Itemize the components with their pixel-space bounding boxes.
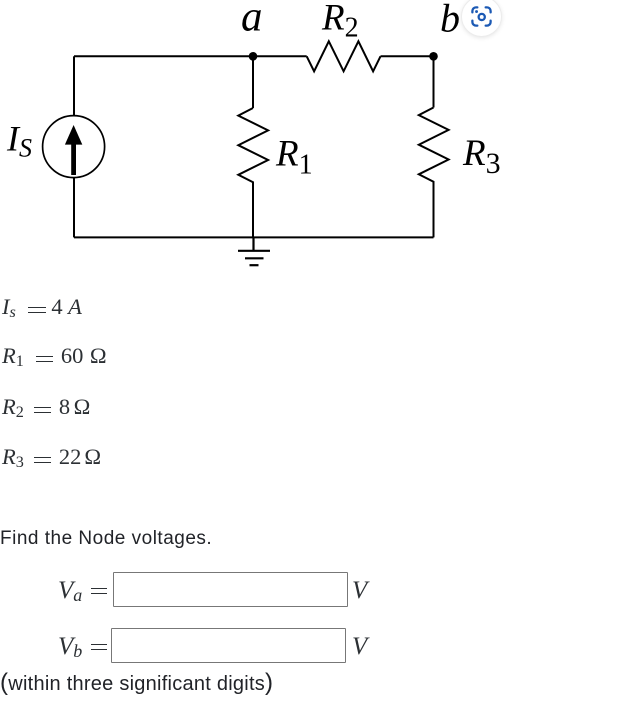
node a junction dot <box>249 52 258 61</box>
prompt text <box>0 529 212 548</box>
current source IS circle <box>43 116 105 178</box>
svg-text:R3: R3 <box>462 133 501 180</box>
note text <box>0 671 273 695</box>
answer row Va <box>58 578 107 603</box>
circuit schematic drawing <box>0 0 643 290</box>
wire: R3 bottom to bottom rail <box>433 186 435 238</box>
wire: current source bottom to bottom rail <box>73 178 75 238</box>
wire: node b down to R3 top <box>433 56 435 107</box>
given value: Is = 4 A <box>2 296 82 319</box>
node b junction dot <box>429 52 438 61</box>
resistor R2 (horizontal zigzag) <box>307 41 381 71</box>
answer row Vb <box>58 634 107 659</box>
svg-text:b: b <box>440 0 460 41</box>
given value: R2 = 8 ohm <box>2 396 90 419</box>
resistor R3 (vertical zigzag) <box>419 108 449 186</box>
wire: node a down to R1 top <box>252 56 254 108</box>
given value: R1 = 60 ohm <box>2 345 107 368</box>
wire: R1 bottom to bottom rail <box>252 186 254 237</box>
wire: node a to R2 left lead <box>253 55 307 57</box>
screenshot-search icon button <box>461 0 502 37</box>
input box Vb <box>111 628 346 663</box>
unit V for Va <box>352 578 367 603</box>
unit V for Vb <box>352 634 367 659</box>
svg-text:a: a <box>241 0 263 41</box>
wire: left rail down to current source top <box>73 56 75 115</box>
svg-text:R1: R1 <box>275 133 313 180</box>
svg-text:IS: IS <box>6 119 32 163</box>
ground symbol <box>238 237 270 265</box>
given value: R3 = 22 ohm <box>2 446 101 469</box>
input box Va <box>113 572 348 607</box>
current source arrow <box>65 125 82 175</box>
resistor R1 (vertical zigzag) <box>238 108 268 186</box>
wire: top rail from left corner to node a <box>74 55 253 57</box>
wire: R2 right lead to node b <box>381 55 434 57</box>
wire: bottom rail <box>74 236 434 238</box>
svg-text:R2: R2 <box>321 0 359 43</box>
